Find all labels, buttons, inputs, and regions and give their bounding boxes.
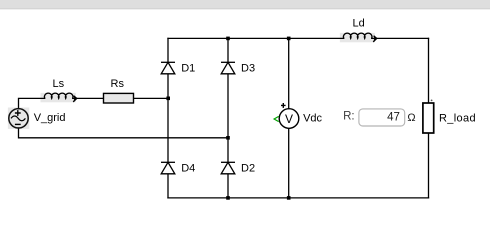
svg-text:D2: D2 [241, 163, 255, 175]
svg-text:D4: D4 [181, 163, 195, 175]
svg-text:V_grid: V_grid [34, 112, 66, 124]
svg-text:Ls: Ls [53, 78, 65, 90]
svg-text:Vdc: Vdc [303, 112, 322, 124]
svg-text:V: V [285, 112, 293, 126]
svg-text:Ω: Ω [407, 112, 415, 124]
svg-text:D1: D1 [181, 63, 195, 75]
svg-text:R:: R: [343, 111, 355, 123]
svg-text:Rs: Rs [111, 78, 125, 90]
svg-text:Ld: Ld [353, 18, 365, 30]
svg-text:47: 47 [387, 112, 400, 124]
svg-text:D3: D3 [241, 63, 255, 75]
svg-text:R_load: R_load [439, 113, 476, 125]
